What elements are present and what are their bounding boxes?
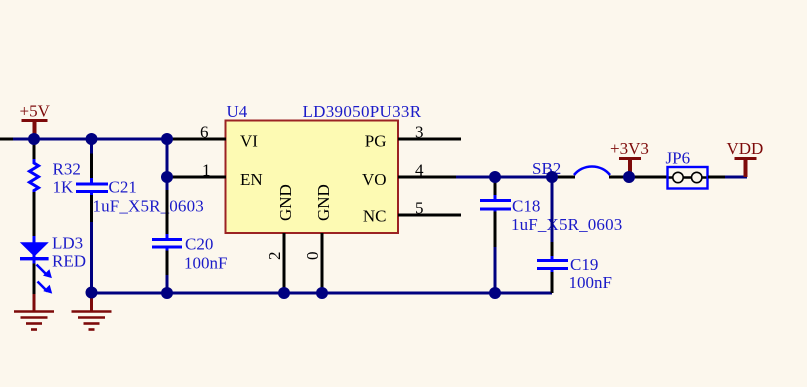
svg-text:U4: U4: [227, 102, 248, 121]
svg-text:C19: C19: [570, 255, 598, 274]
svg-text:JP6: JP6: [666, 149, 691, 168]
pin 4 VO: [362, 161, 458, 190]
junction dot at C18 top: [489, 171, 501, 183]
LED LD3: [20, 234, 86, 296]
svg-text:C20: C20: [185, 235, 213, 254]
svg-text:GND: GND: [314, 184, 333, 221]
svg-text:100nF: 100nF: [569, 273, 612, 292]
pin 5 NC: [363, 199, 461, 226]
wire: left black stub into +5V rail: [0, 138, 15, 141]
svg-text:R32: R32: [53, 160, 81, 179]
svg-text:2: 2: [265, 252, 284, 261]
ground symbol (rail): [72, 293, 112, 330]
svg-text:NC: NC: [363, 207, 387, 226]
svg-text:6: 6: [200, 123, 209, 142]
svg-text:LD39050PU33R: LD39050PU33R: [303, 102, 422, 121]
svg-text:+3V3: +3V3: [610, 139, 649, 158]
junction dot GND pin 0: [316, 287, 328, 299]
svg-text:RED: RED: [52, 251, 86, 270]
wire: +3V3 to JP6: [629, 176, 667, 179]
svg-text:EN: EN: [240, 170, 263, 189]
pin 0 GND: [303, 184, 333, 293]
capacitor C19: [537, 177, 612, 293]
capacitor C20: [152, 177, 227, 293]
capacitor C18: [480, 177, 622, 293]
power port VDD: [727, 139, 764, 177]
wire: vertical VI-to-EN tie: [166, 139, 169, 177]
resistor R32: [30, 139, 81, 237]
power port +5V: [20, 101, 51, 139]
regulator IC U4 LD39050PU33R body: [226, 102, 422, 233]
pin 3 PG: [365, 123, 461, 151]
svg-text:VO: VO: [362, 170, 387, 189]
jumper JP6: [666, 149, 709, 189]
ground symbol (LED): [14, 294, 54, 330]
svg-text:1: 1: [202, 161, 211, 180]
wire: VO net to SB2: [456, 176, 552, 179]
svg-text:1uF_X5R_0603: 1uF_X5R_0603: [93, 197, 204, 216]
svg-text:PG: PG: [365, 132, 387, 151]
svg-text:4: 4: [415, 161, 424, 180]
svg-text:+5V: +5V: [20, 101, 51, 120]
capacitor C21: [76, 139, 204, 293]
junction dot at C21 bottom / ground: [86, 287, 98, 299]
wire: +5V top rail: [13, 138, 167, 141]
junction dot at VI pin end: [161, 133, 173, 145]
junction dot C18 bottom: [489, 287, 501, 299]
solder bridge SB2: [532, 159, 627, 178]
junction dot at +3V3: [623, 171, 635, 183]
power port +3V3: [610, 139, 649, 177]
wire: JP6 to VDD (black stub): [708, 176, 727, 179]
pin 1 EN: [167, 161, 263, 190]
junction dot C20 bottom: [161, 287, 173, 299]
svg-text:100nF: 100nF: [184, 253, 227, 272]
svg-text:0: 0: [303, 252, 322, 261]
svg-text:1K: 1K: [53, 177, 75, 196]
pin 6 VI: [167, 123, 258, 151]
pin 2 GND: [265, 184, 295, 293]
wire: bottom ground rail: [92, 292, 553, 295]
svg-text:LD3: LD3: [52, 234, 83, 253]
svg-text:5: 5: [415, 199, 424, 218]
svg-text:C18: C18: [512, 197, 540, 216]
svg-text:VDD: VDD: [727, 139, 764, 158]
svg-text:GND: GND: [276, 184, 295, 221]
svg-text:1uF_X5R_0603: 1uF_X5R_0603: [511, 215, 622, 234]
junction dot at SB2 / C19: [546, 171, 558, 183]
junction dot GND pin 2: [278, 287, 290, 299]
svg-text:C21: C21: [109, 177, 137, 196]
wire: short blue wire at VDD: [725, 176, 747, 179]
svg-text:VI: VI: [240, 132, 258, 151]
svg-text:3: 3: [415, 123, 424, 142]
junction dot at EN pin end: [161, 171, 173, 183]
junction dot at +5V entry: [28, 133, 40, 145]
junction dot at C21 top: [86, 133, 98, 145]
